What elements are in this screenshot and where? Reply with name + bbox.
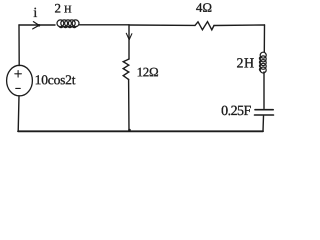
wire middle branch lower (resistor to bottom) (128, 80, 130, 132)
svg-text:10cos2t: 10cos2t (35, 72, 76, 87)
voltage source Vs circle (7, 65, 33, 96)
voltage source plus sign (15, 71, 22, 78)
wire top from node A to resistor 4ohm (129, 24, 195, 26)
capacitor C1 0.25F top plate (255, 109, 273, 111)
wire left upper (corner down to source) (18, 25, 20, 66)
wire middle branch upper (node A down to resistor) (128, 25, 130, 59)
capacitor C1 0.25F bottom plate (255, 114, 274, 116)
arrow down on middle branch (126, 33, 132, 39)
wire right middle (coil to capacitor) (263, 72, 265, 109)
inductor L2 2H (vertical coil) (259, 52, 266, 73)
svg-text:2H: 2H (236, 56, 254, 71)
wire top-left from corner to inductor (19, 24, 55, 26)
wire top-right to corner (214, 24, 265, 27)
svg-text:2: 2 (55, 0, 62, 15)
current arrow i head (33, 22, 39, 29)
svg-text:i: i (33, 6, 37, 21)
resistor R1 12ohm zigzag (123, 59, 129, 80)
svg-text:4Ω: 4Ω (196, 0, 212, 15)
junction dot bottom node B (128, 129, 131, 132)
voltage source minus sign (16, 87, 21, 89)
svg-text:H: H (64, 4, 72, 15)
wire left lower (source to bottom corner) (17, 96, 20, 132)
svg-text:0.25F: 0.25F (221, 104, 251, 119)
wire bottom (18, 130, 263, 132)
resistor R2 4ohm zigzag (195, 22, 214, 30)
svg-text:12Ω: 12Ω (137, 64, 159, 79)
wire right upper (corner down to coil) (263, 25, 265, 52)
current arrow i tip dot (38, 24, 41, 27)
wire right lower (capacitor to bottom corner) (262, 116, 265, 131)
wire top middle from inductor to node A (79, 24, 129, 26)
inductor L1 2H (horizontal coil) (57, 20, 79, 28)
